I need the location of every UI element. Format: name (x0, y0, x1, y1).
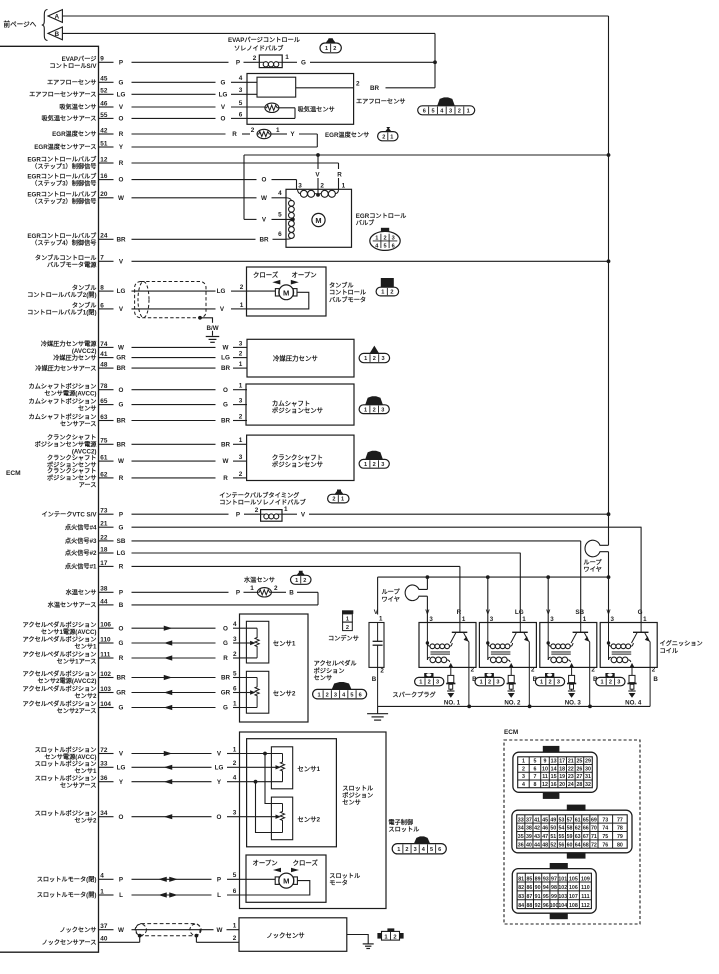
svg-text:2: 2 (382, 134, 385, 140)
svg-text:1: 1 (342, 182, 346, 189)
svg-text:2: 2 (253, 55, 257, 62)
svg-text:111: 111 (100, 651, 110, 658)
svg-text:ノックセンサアース: ノックセンサアース (42, 939, 97, 947)
connector: EGR temp sensor 2|1 (378, 127, 398, 141)
svg-text:G: G (223, 705, 228, 712)
svg-text:2: 2 (380, 667, 384, 674)
svg-text:EVAPパージコントロール: EVAPパージコントロール (228, 36, 301, 44)
svg-text:3: 3 (617, 680, 620, 686)
svg-text:2: 2 (346, 625, 349, 631)
wire row: ECM pin 22 (99, 534, 581, 545)
svg-text:1: 1 (379, 616, 383, 623)
svg-text:41: 41 (100, 351, 108, 358)
svg-text:7: 7 (533, 774, 536, 780)
wire: hot film to pin2 BR (296, 81, 435, 93)
wire row: ECM pin 6 (99, 302, 247, 313)
wire row: ECM pin 102 (99, 670, 240, 681)
svg-text:4: 4 (522, 782, 525, 788)
svg-text:センサ: センサ (342, 800, 361, 807)
svg-text:アース: アース (79, 482, 97, 489)
svg-text:ソレノイドバルブ: ソレノイドバルブ (234, 45, 284, 53)
svg-text:O: O (221, 116, 226, 123)
svg-text:EGR温度センサ: EGR温度センサ (325, 131, 369, 139)
svg-text:ポジション: ポジション (314, 667, 345, 675)
svg-text:インテークバルブタイミング: インテークバルブタイミング (219, 491, 300, 499)
svg-text:2: 2 (393, 934, 396, 940)
svg-text:6: 6 (233, 685, 237, 692)
svg-text:B: B (119, 602, 124, 609)
svg-text:106: 106 (569, 885, 578, 891)
svg-text:吸気温センサアース: 吸気温センサアース (41, 115, 96, 123)
label: row pin 46 (59, 103, 96, 111)
svg-text:BR: BR (116, 365, 126, 372)
svg-text:BR: BR (116, 418, 126, 425)
svg-text:88: 88 (526, 903, 532, 909)
svg-text:R: R (223, 655, 228, 662)
resistor: intake air temp sensor (265, 103, 279, 112)
svg-text:31: 31 (585, 774, 591, 780)
wire: ignition signal #3 SB down to coil3 (580, 541, 582, 623)
label: row pin 4 (37, 876, 97, 884)
svg-text:6: 6 (278, 231, 282, 238)
label: row pin 12 (27, 156, 97, 171)
svg-text:69: 69 (591, 817, 597, 823)
wire: EGR temp sensor Y return (271, 131, 317, 147)
svg-text:46: 46 (542, 826, 548, 832)
svg-text:86: 86 (526, 885, 532, 891)
svg-text:BR: BR (116, 236, 126, 243)
sensor2 box (accel) (246, 671, 295, 713)
svg-text:BR: BR (116, 441, 126, 448)
svg-text:66: 66 (583, 826, 589, 832)
svg-text:点火信号#2: 点火信号#2 (65, 549, 97, 557)
svg-text:41: 41 (534, 817, 540, 823)
svg-text:5: 5 (533, 759, 536, 765)
svg-text:R: R (223, 475, 228, 482)
wire row: ECM pin 46 (99, 100, 265, 111)
EGR valve top coils pins 3-2-1 (298, 182, 346, 197)
svg-text:タンブル: タンブル (72, 284, 97, 292)
svg-text:98: 98 (551, 885, 557, 891)
svg-text:モータ: モータ (329, 879, 348, 887)
junction: knock shield right drain (195, 934, 199, 938)
svg-text:71: 71 (591, 834, 597, 840)
wire row: ECM pin 40 (99, 935, 237, 943)
svg-text:スロットルポジション: スロットルポジション (35, 746, 97, 754)
svg-text:EGR温度センサ: EGR温度センサ (52, 130, 96, 138)
label: row pin 55 (41, 115, 96, 123)
svg-text:タンブル: タンブル (72, 302, 97, 310)
svg-text:62: 62 (100, 471, 108, 478)
svg-text:B: B (289, 589, 294, 596)
svg-text:P: P (119, 511, 123, 518)
wire row: ECM pin 24 (99, 233, 287, 244)
svg-text:97: 97 (551, 876, 557, 882)
wire row: ECM pin 33 (99, 760, 240, 771)
svg-text:37: 37 (100, 923, 108, 930)
junction: EVAP G wire on net B (433, 60, 437, 64)
wire: vertical net A x=608.5 down to loop wire (608, 16, 610, 545)
svg-text:センサアース: センサアース (60, 782, 96, 789)
svg-text:スロットル: スロットル (342, 785, 374, 792)
svg-text:アクセルペダルポジション: アクセルペダルポジション (23, 700, 97, 708)
svg-text:2: 2 (233, 651, 237, 658)
label: row pin 16 (27, 172, 97, 187)
svg-text:55: 55 (100, 112, 108, 119)
svg-text:104: 104 (558, 903, 567, 909)
svg-text:61: 61 (100, 455, 108, 462)
wire row: ECM pin 45 (99, 75, 258, 86)
label: row pin 63 (28, 413, 96, 428)
svg-text:45: 45 (100, 76, 108, 83)
svg-text:6: 6 (100, 302, 104, 309)
svg-text:40: 40 (526, 842, 532, 848)
svg-text:センサ1アース: センサ1アース (57, 659, 97, 666)
label: tumble control valve motor (329, 281, 367, 303)
label: ECM (6, 470, 21, 477)
svg-text:5: 5 (233, 670, 237, 677)
wire row: ECM pin 7 (99, 255, 609, 266)
svg-text:1: 1 (325, 46, 328, 52)
junction: shield drain B/W (198, 316, 212, 336)
svg-text:冷媒圧力センサ: 冷媒圧力センサ (273, 353, 318, 362)
svg-text:EGRコントロールバルブ: EGRコントロールバルブ (27, 191, 97, 199)
svg-text:ECM: ECM (504, 729, 518, 736)
ignition coil U1 (cylinder 1) (419, 609, 477, 706)
EGR valve left coils pins 4-5-6 (278, 190, 295, 239)
svg-text:LG: LG (221, 355, 230, 362)
svg-text:クランクシャフト: クランクシャフト (47, 434, 97, 442)
wire: EVAP solenoid G to net B (282, 59, 435, 66)
svg-text:P: P (119, 876, 123, 883)
wire row: ECM pin 106 (99, 621, 240, 632)
svg-text:54: 54 (558, 826, 564, 832)
junction: net A at tumble motor power line y=261.3 (607, 259, 611, 263)
svg-text:G: G (119, 402, 124, 409)
svg-text:G: G (119, 640, 124, 647)
svg-text:84: 84 (518, 903, 524, 909)
svg-text:EVAPパージ: EVAPパージ (62, 55, 98, 63)
svg-text:6: 6 (438, 847, 441, 853)
svg-text:6: 6 (423, 108, 426, 114)
svg-text:クランクシャフト: クランクシャフト (47, 454, 97, 462)
svg-text:タンブルコントロール: タンブルコントロール (35, 254, 97, 262)
svg-text:18: 18 (559, 766, 565, 772)
svg-text:クランクシャフト: クランクシャフト (272, 452, 323, 461)
svg-text:W: W (118, 195, 124, 202)
svg-text:1: 1 (295, 578, 298, 584)
wire: intake air temp sensor loop to pin 6 (247, 108, 295, 119)
wire: tumble motor pin2 LG (247, 290, 276, 292)
ECM connector area (dashed box) (504, 729, 640, 924)
label: row pin 38 (66, 589, 97, 597)
svg-text:6: 6 (239, 111, 243, 118)
wire: throttle motor pin6 L loop (246, 881, 310, 895)
svg-text:O: O (262, 177, 267, 184)
svg-text:106: 106 (100, 622, 111, 629)
svg-text:1: 1 (522, 759, 525, 765)
svg-text:44: 44 (534, 842, 540, 848)
svg-text:GR: GR (116, 355, 126, 362)
electronic throttle outer box (240, 732, 387, 909)
svg-text:P: P (217, 876, 221, 883)
wire row: ECM pin 18 (99, 546, 521, 557)
resistor: water temperature sensor (257, 585, 278, 597)
svg-text:2: 2 (255, 507, 259, 514)
svg-text:ポジションセンサ電源: ポジションセンサ電源 (35, 441, 98, 449)
svg-text:33: 33 (518, 817, 524, 823)
connector: tumble motor 1|2 (376, 278, 399, 296)
svg-text:W: W (223, 458, 229, 465)
svg-text:105: 105 (569, 876, 578, 882)
svg-text:21: 21 (568, 759, 574, 765)
svg-text:コントロールバルブ2(開): コントロールバルブ2(開) (27, 291, 96, 299)
labels: open / close arrows (throttle) (253, 858, 319, 873)
svg-text:17: 17 (100, 560, 108, 567)
svg-text:2: 2 (548, 680, 551, 686)
svg-text:96: 96 (543, 903, 549, 909)
svg-text:5: 5 (278, 211, 282, 218)
svg-text:1: 1 (239, 383, 243, 390)
svg-text:1: 1 (364, 407, 367, 413)
wire row: ECM pin 72 (99, 746, 240, 757)
svg-text:110: 110 (581, 885, 590, 891)
svg-text:GR: GR (221, 690, 231, 697)
svg-text:5: 5 (350, 692, 353, 698)
svg-text:G: G (119, 705, 124, 712)
svg-text:3: 3 (381, 356, 384, 362)
svg-text:EGRコントロールバルブ: EGRコントロールバルブ (27, 232, 97, 240)
connector: water temp sensor 1|2 (291, 571, 312, 585)
svg-text:109: 109 (581, 876, 590, 882)
svg-text:12: 12 (100, 156, 108, 163)
svg-text:EGRコントロールバルブ: EGRコントロールバルブ (27, 172, 97, 180)
label: ignition coil (660, 640, 703, 655)
svg-text:ポジションセンサ: ポジションセンサ (272, 459, 324, 468)
svg-text:78: 78 (617, 826, 623, 832)
svg-text:65: 65 (583, 817, 589, 823)
wire: knock sensor case ground (347, 935, 368, 944)
svg-text:3: 3 (449, 108, 452, 114)
svg-text:アクセルペダル: アクセルペダル (314, 660, 358, 668)
label: loop wire (left) (382, 588, 401, 603)
svg-text:75: 75 (602, 834, 608, 840)
svg-text:点火信号#4: 点火信号#4 (65, 523, 97, 531)
svg-text:カムシャフト: カムシャフト (272, 399, 310, 407)
wire: O from ECM pin16 down to EGR valve pin3 (296, 180, 298, 190)
svg-text:センサ電源(AVCC): センサ電源(AVCC) (44, 389, 96, 397)
svg-text:R: R (457, 609, 462, 616)
svg-text:10: 10 (542, 766, 548, 772)
connector: spark plug 3 1|2|3 (535, 673, 564, 686)
svg-text:33: 33 (100, 761, 108, 768)
svg-text:O: O (119, 625, 124, 632)
svg-text:6: 6 (533, 766, 536, 772)
svg-text:O: O (119, 387, 124, 394)
connector: air flow sensor 6|5|4|3|2|1 (418, 97, 475, 114)
svg-text:インテークVTC S/V: インテークVTC S/V (41, 510, 97, 518)
svg-text:36: 36 (518, 842, 524, 848)
label: EGR temperature sensor (325, 131, 369, 139)
svg-text:17: 17 (559, 759, 565, 765)
svg-text:クローズ: クローズ (293, 858, 319, 867)
svg-text:コントロールバルブ1(閉): コントロールバルブ1(閉) (27, 309, 96, 317)
svg-text:1: 1 (239, 437, 243, 444)
wire: knock ground row jog to shield (140, 936, 239, 943)
svg-text:38: 38 (526, 826, 532, 832)
label: row pin 48 (35, 364, 96, 372)
svg-text:センサ1: センサ1 (297, 765, 320, 773)
throttle motor box (246, 855, 326, 902)
connector: electronic throttle 1-6 (392, 836, 446, 853)
label: row pin 61 (47, 454, 97, 469)
svg-text:52: 52 (100, 88, 108, 95)
junction: V bus at coil3 drop (546, 575, 550, 622)
svg-text:P: P (236, 59, 240, 66)
ground: knock sensor (363, 944, 374, 949)
svg-text:42: 42 (100, 127, 108, 134)
svg-text:2: 2 (251, 127, 255, 134)
svg-text:電子制御: 電子制御 (388, 818, 413, 826)
camshaft position sensor box (246, 384, 354, 425)
label: spark plug (392, 691, 436, 699)
wire row: ECM pin 9 (99, 55, 260, 66)
capacitor: condenser (369, 609, 384, 706)
connector: EGR control valve 2x3 (370, 228, 400, 251)
svg-text:M: M (283, 877, 289, 886)
label: row pin 21 (65, 523, 97, 531)
svg-text:EGRコントロールバルブ: EGRコントロールバルブ (27, 156, 97, 164)
sensor1 box (accel) (246, 621, 295, 663)
svg-text:1: 1 (583, 616, 587, 623)
svg-text:11: 11 (542, 774, 548, 780)
wire: V bus for ignition coils (378, 576, 609, 578)
svg-text:24: 24 (568, 782, 574, 788)
junction: V drop to EGR valve pin2 (316, 153, 320, 195)
label: row pin 72 (35, 746, 97, 761)
label: row pin 41 (53, 354, 96, 362)
wire row: ECM pin 16 (99, 173, 297, 184)
svg-text:O: O (223, 625, 228, 632)
svg-text:60: 60 (567, 842, 573, 848)
svg-text:A: A (54, 14, 59, 21)
ignition coil U3 (cylinder 3) (540, 609, 598, 706)
svg-text:2: 2 (383, 235, 386, 241)
svg-text:カムシャフトポジション: カムシャフトポジション (28, 413, 96, 421)
tumble control valve motor box (247, 267, 327, 316)
svg-text:104: 104 (100, 701, 111, 708)
label: row pin 73 (41, 510, 97, 518)
junction: V bus to net A vertical (607, 575, 611, 622)
svg-text:2: 2 (471, 667, 475, 674)
svg-text:103: 103 (100, 686, 111, 693)
svg-text:バルブ: バルブ (356, 219, 375, 227)
label: previous page (4, 10, 48, 41)
svg-text:O: O (119, 177, 124, 184)
svg-text:3: 3 (429, 616, 433, 623)
wire row: ECM pin 62 (99, 471, 248, 482)
ground: ignition coil bus ground (367, 706, 388, 720)
svg-text:1: 1 (375, 235, 378, 241)
svg-text:3: 3 (233, 810, 237, 817)
label: row pin 42 (52, 130, 96, 138)
connector: EVAP solenoid 1|2 (320, 38, 341, 53)
svg-text:21: 21 (100, 521, 108, 528)
connector: crankshaft position sensor 1|2|3 (359, 451, 389, 468)
svg-text:水温センサ: 水温センサ (244, 576, 275, 584)
svg-text:イグニッション: イグニッション (660, 640, 703, 648)
junction: net A at EGR V line y=155 (607, 153, 611, 157)
svg-text:101: 101 (558, 876, 567, 882)
svg-text:4: 4 (278, 190, 282, 197)
svg-text:26: 26 (576, 766, 582, 772)
wire row: ECM pin 48 (99, 361, 248, 372)
refrigerant pressure sensor box (247, 339, 354, 377)
wire: ignition signal #1 R down to coil1 (459, 566, 461, 622)
svg-text:3: 3 (557, 680, 560, 686)
connector: spark plug 2 1|2|3 (475, 673, 504, 686)
svg-text:2: 2 (356, 81, 360, 88)
wire row: ECM pin 103 (99, 685, 240, 696)
svg-text:センサ2アース: センサ2アース (57, 708, 97, 715)
label: row pin 36 (35, 774, 97, 789)
svg-text:52: 52 (550, 842, 556, 848)
wire row: ECM pin 4 (99, 872, 247, 883)
svg-text:1: 1 (233, 700, 237, 707)
svg-text:ノックセンサ: ノックセンサ (59, 926, 96, 934)
svg-text:7: 7 (100, 255, 104, 262)
svg-text:W: W (118, 345, 124, 352)
svg-text:3: 3 (490, 616, 494, 623)
label: throttle motor (329, 873, 361, 887)
svg-text:3: 3 (239, 87, 243, 94)
svg-text:LG: LG (217, 288, 226, 295)
svg-text:8: 8 (533, 782, 536, 788)
label: row pin 20 (27, 191, 97, 206)
svg-text:ノックセンサ: ノックセンサ (266, 931, 305, 940)
svg-text:1: 1 (240, 302, 244, 309)
svg-text:58: 58 (567, 826, 573, 832)
svg-text:25: 25 (576, 759, 582, 765)
svg-text:45: 45 (542, 817, 548, 823)
svg-text:W: W (118, 458, 124, 465)
svg-text:LG: LG (117, 288, 126, 295)
label: condenser connector (328, 610, 359, 642)
svg-text:2: 2 (488, 680, 491, 686)
label: NO. 2 (504, 700, 521, 707)
svg-text:47: 47 (542, 834, 548, 840)
svg-text:9: 9 (544, 759, 547, 765)
svg-text:SB: SB (117, 538, 126, 545)
svg-text:（ステップ4）制御信号: （ステップ4）制御信号 (31, 239, 96, 247)
wire: ignition signal #2 LG down to coil2 (519, 553, 521, 623)
svg-text:95: 95 (543, 894, 549, 900)
svg-text:40: 40 (100, 936, 108, 943)
svg-text:M: M (283, 288, 289, 297)
svg-text:水温センサアース: 水温センサアース (48, 601, 97, 609)
svg-text:吸気温センサ: 吸気温センサ (298, 106, 335, 114)
svg-text:14: 14 (551, 766, 557, 772)
wire row: ECM pin 34 (99, 810, 240, 821)
label: row pin 7 (35, 254, 97, 269)
label: R on EGR valve pin1 wire (335, 169, 344, 178)
ECM connector grid 3 (pins 81-112) (512, 863, 596, 919)
svg-text:1: 1 (317, 692, 320, 698)
svg-text:アクセルペダルポジション: アクセルペダルポジション (23, 621, 97, 629)
loop wire (right) in net A vertical (585, 540, 608, 577)
svg-text:48: 48 (100, 362, 108, 369)
svg-text:1: 1 (643, 616, 647, 623)
